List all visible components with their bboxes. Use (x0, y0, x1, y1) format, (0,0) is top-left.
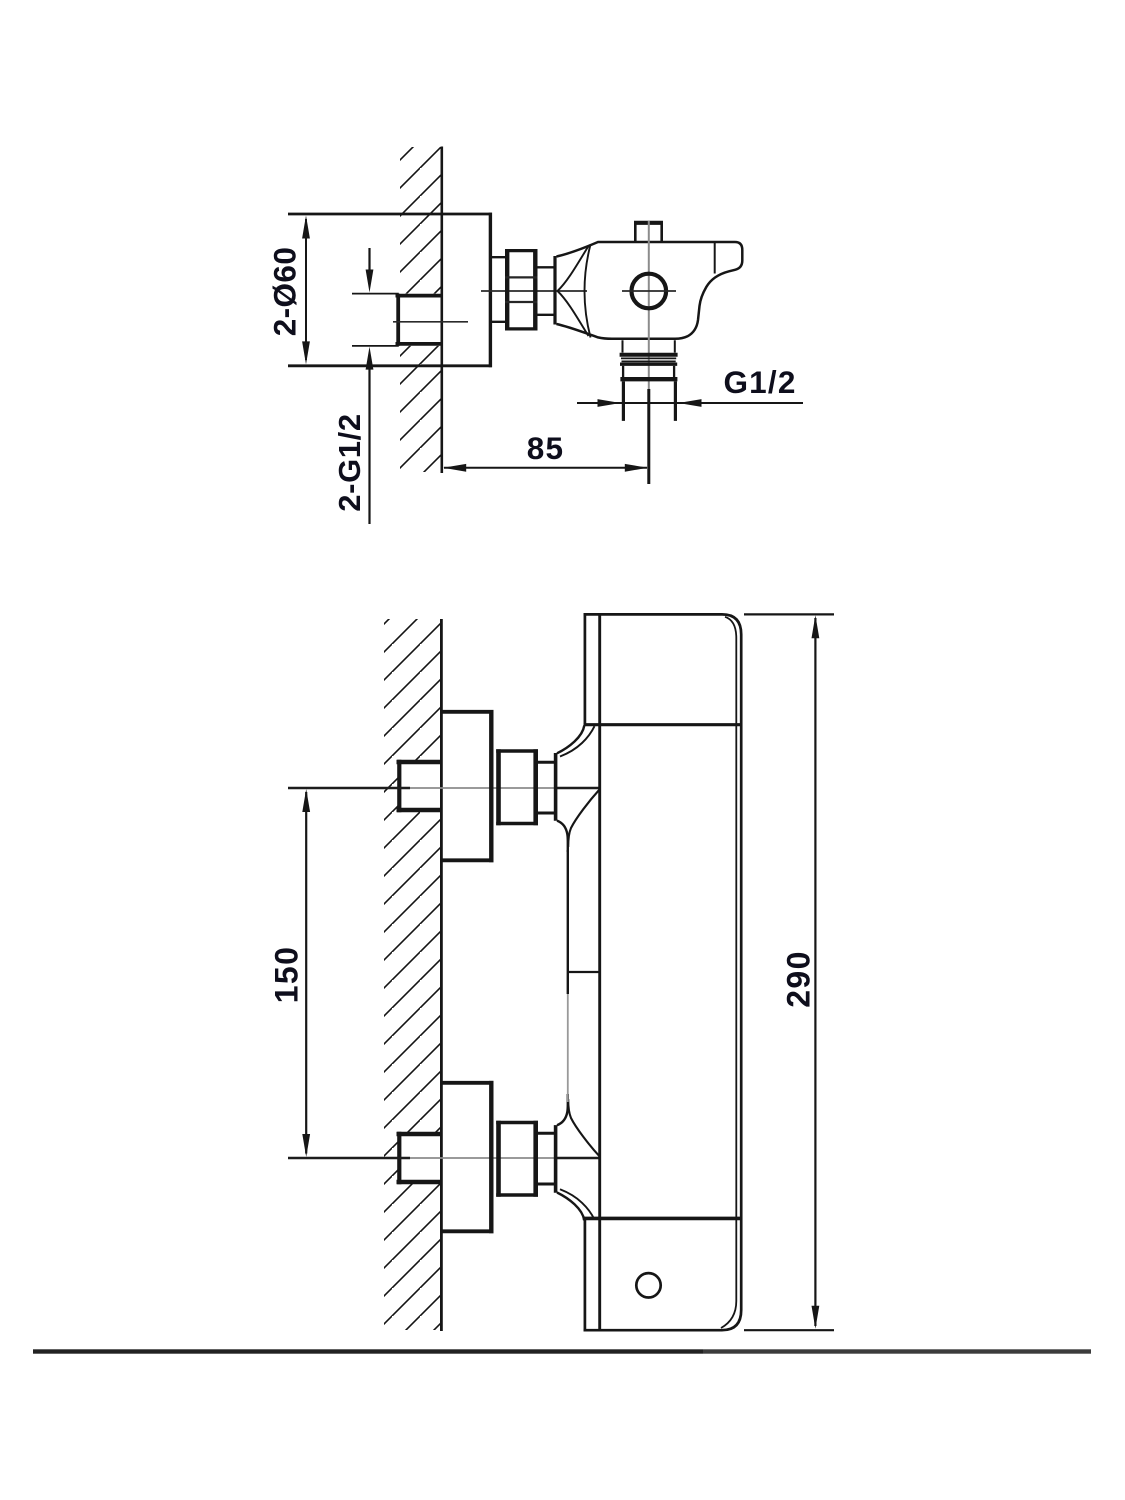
waist line gray part (567, 994, 569, 1102)
outlet section walls (623, 366, 674, 377)
outlet thin ring (621, 357, 676, 359)
upper nut (bottom view) (499, 749, 536, 825)
waist line black upper part (567, 850, 569, 994)
dim 85 line (444, 467, 647, 469)
bottom border line (33, 1349, 703, 1353)
svg-text:G1/2: G1/2 (723, 364, 796, 400)
wall line (top view) (440, 147, 443, 474)
svg-text:85: 85 (527, 430, 564, 466)
svg-text:2-Ø60: 2-Ø60 (267, 247, 303, 337)
wall pipe left edge (396, 294, 400, 346)
dim 290 arrows (812, 615, 820, 638)
lower mount centerline (288, 1157, 410, 1159)
lower trumpet curves (557, 1193, 584, 1221)
escutcheon flange (top view) (288, 214, 492, 366)
body outline (bottom view) (584, 614, 742, 1330)
dim 290 line (814, 618, 816, 1326)
wall pipe bottom edge (396, 342, 443, 346)
dim 2-Ø60 arrow down (302, 341, 310, 364)
handle stem (top view) (634, 221, 663, 225)
union nut (top view) (507, 249, 535, 331)
leader 2-G1/2 up arrow + line (366, 347, 374, 370)
wall pipe top edge (396, 294, 443, 298)
dim 150 line (305, 792, 307, 1154)
body divider line (top view) (714, 242, 716, 274)
outlet thin ring 2 (622, 360, 676, 362)
outlet band 3 (620, 377, 677, 381)
dim 85 right arrow (625, 464, 648, 472)
leader 2-G1/2 down arrow (368, 248, 370, 275)
wall line (bottom view) (440, 619, 443, 1331)
outlet band 2 (620, 363, 677, 366)
upper neck (bottom view) (538, 762, 554, 813)
circle crosshair (622, 290, 676, 292)
dim G1/2 right arrow (679, 399, 702, 407)
svg-text:2-G1/2: 2-G1/2 (332, 413, 367, 511)
nut hex flats (505, 277, 538, 302)
wall pipe upper (bottom view) (399, 760, 442, 812)
dim 2-Ø60 arrow up (302, 216, 310, 239)
dim 150 arrows (302, 789, 310, 812)
upper trumpet mouth bar (554, 753, 558, 821)
union neck 2 (538, 267, 555, 315)
trumpet inner funnel curves (top view) (558, 246, 589, 291)
union neck 1 (492, 257, 506, 322)
trumpet rim arc (top view) (585, 245, 591, 338)
waist tick (568, 971, 600, 973)
trumpet mouth bar (top view) (553, 256, 556, 325)
dim 2-Ø60 line (305, 219, 307, 360)
svg-text:150: 150 (269, 946, 305, 1004)
wall pipe (top view) white body (396, 294, 442, 346)
lower trumpet mouth bar (554, 1125, 558, 1193)
lower flange (bottom view) (442, 1083, 494, 1232)
stem/outlet gray centerline (648, 221, 650, 389)
wall pipe lower (bottom view) (399, 1132, 442, 1184)
wall hatching bottom view (384, 619, 441, 1330)
upper flange (bottom view) (442, 712, 494, 861)
outlet centerline black (647, 389, 650, 484)
dim 290 extension lines (744, 614, 834, 1330)
cap separator bottom (583, 1217, 741, 1221)
cap left edges (584, 613, 587, 1331)
outlet band 1 (620, 353, 678, 357)
svg-text:290: 290 (781, 950, 817, 1008)
inner right line (721, 617, 736, 1328)
cap separator top (584, 723, 742, 726)
wall pipe extension lines (352, 294, 399, 346)
lower neck (bottom view) (538, 1133, 554, 1184)
body left edge (598, 613, 601, 1331)
dim G1/2 lines (577, 402, 803, 404)
handle circle (top view) (632, 274, 667, 309)
screw circle bottom cap (636, 1273, 660, 1297)
upper trumpet curves (557, 726, 584, 754)
upper mount centerline (288, 787, 410, 789)
wall hatching top view (400, 147, 442, 472)
lower nut (bottom view) (499, 1121, 536, 1197)
dim G1/2 left arrow (598, 399, 621, 407)
outlet coupler edges (623, 381, 675, 421)
valve body outline (top view) (557, 242, 743, 339)
outlet stubs below body (623, 340, 675, 352)
dim 85 left arrow (443, 464, 466, 472)
pipe centerline (top view) (393, 321, 468, 323)
valve axis centerline (top view) (481, 290, 587, 292)
